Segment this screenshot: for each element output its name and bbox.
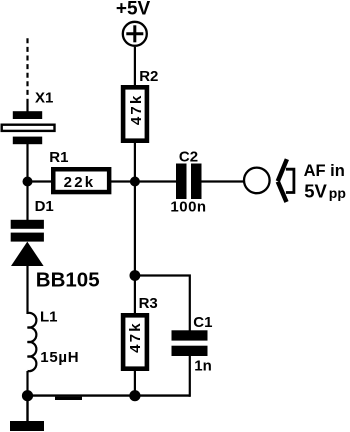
- label D1: [35, 198, 54, 215]
- resistor R1: [53, 169, 109, 192]
- svg-text:R1: R1: [49, 149, 68, 166]
- wire R2 to node A: [134, 141, 136, 182]
- supply terminal +5V: [123, 22, 147, 46]
- wire L1 to bottom rail: [26, 371, 28, 396]
- junction node C: [130, 270, 141, 281]
- AF input arrow symbol: [278, 159, 294, 202]
- svg-text:R2: R2: [139, 68, 158, 85]
- wire R3 to bottom rail: [134, 369, 136, 396]
- value 100n (C2): [170, 198, 206, 215]
- svg-text:C2: C2: [179, 148, 198, 165]
- svg-text:L1: L1: [40, 308, 58, 325]
- svg-text:AF in: AF in: [304, 162, 345, 180]
- label R3: [139, 295, 158, 312]
- svg-text:100n: 100n: [170, 198, 206, 215]
- value 47k (R2): [128, 93, 145, 125]
- svg-text:R3: R3: [139, 295, 158, 312]
- label R1: [49, 149, 68, 166]
- wire supply to R2: [134, 47, 136, 86]
- dashed wire above crystal: [26, 38, 28, 95]
- label C1: [193, 314, 212, 331]
- svg-text:5V: 5V: [304, 180, 327, 201]
- svg-text:47k: 47k: [127, 321, 144, 353]
- svg-text:+5V: +5V: [116, 0, 151, 20]
- value 47k (R3): [127, 321, 144, 353]
- bottom rail wire: [28, 394, 190, 396]
- wire node B to R1: [28, 180, 55, 182]
- label AF in: [304, 162, 345, 180]
- svg-text:X1: X1: [35, 90, 53, 107]
- capacitor C1: [172, 330, 208, 356]
- value 1n (C1): [194, 357, 212, 374]
- capacitor C2: [176, 164, 202, 200]
- rail artifact segment: [55, 397, 82, 400]
- ground: [10, 421, 44, 431]
- label X1: [35, 90, 53, 107]
- wire C2 to output terminal: [202, 180, 245, 182]
- wire to ground: [26, 396, 28, 422]
- label C2: [179, 148, 198, 165]
- svg-text:1n: 1n: [194, 357, 212, 374]
- inductor L1: [28, 313, 37, 371]
- wire node A to node C: [134, 182, 136, 276]
- svg-text:D1: D1: [35, 198, 54, 215]
- wire D1 to L1: [26, 265, 28, 314]
- wire node B to D1: [26, 182, 28, 222]
- svg-text:15µH: 15µH: [40, 349, 79, 366]
- value 15uH (L1): [40, 349, 79, 366]
- junction bottom left: [22, 390, 33, 401]
- wire to crystal: [26, 99, 28, 112]
- resistor R3: [123, 315, 147, 368]
- svg-text:C1: C1: [193, 314, 212, 331]
- value 22k (R1): [64, 174, 96, 191]
- wire crystal to node B: [26, 144, 28, 182]
- varactor diode D1: [11, 220, 44, 266]
- wire R1 to node A: [107, 180, 135, 182]
- output terminal circle: [244, 168, 270, 194]
- wire node C to R3: [134, 276, 136, 314]
- wire node A to C2: [135, 180, 177, 182]
- crystal X1: [2, 111, 55, 144]
- wire node C to C1: [135, 276, 190, 332]
- junction node B: [23, 177, 33, 187]
- label 5Vpp: [304, 180, 346, 201]
- label BB105: [36, 269, 100, 292]
- label R2: [139, 68, 158, 85]
- svg-text:pp: pp: [329, 185, 346, 201]
- junction R3 bottom: [129, 390, 140, 401]
- net label +5V: [116, 0, 151, 20]
- svg-text:BB105: BB105: [36, 269, 100, 292]
- label L1: [40, 308, 58, 325]
- wire C1 to bottom rail: [189, 356, 191, 397]
- svg-text:22k: 22k: [64, 174, 96, 191]
- svg-text:47k: 47k: [128, 93, 145, 125]
- junction node A: [130, 177, 140, 187]
- resistor R2: [123, 87, 147, 140]
